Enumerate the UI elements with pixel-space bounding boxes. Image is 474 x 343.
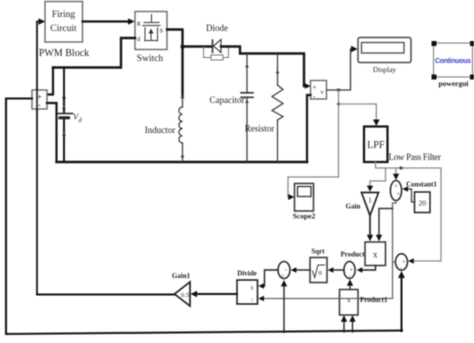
svg-text:Capacitor: Capacitor — [210, 95, 245, 105]
wire rail to measurement right-top port — [47, 68, 53, 95]
wire sum3 output to vertical — [393, 261, 396, 263]
wire bottom power rail — [57, 161, 308, 163]
arrow into sum3 bottom — [398, 271, 405, 278]
wire Divide output to Gain1 — [197, 293, 237, 295]
svg-text:Firing: Firing — [52, 10, 75, 20]
wire LPF output net — [370, 162, 441, 261]
scope Scope2 — [295, 184, 314, 212]
svg-text:Diode: Diode — [206, 23, 228, 33]
wire Switch S output to node — [167, 30, 183, 97]
svg-text:-: - — [349, 274, 351, 280]
arrow into Display — [351, 46, 358, 52]
port tick marks on power components — [63, 65, 279, 157]
gain Gain1 — [175, 282, 191, 306]
arrow into sum2 right — [357, 267, 363, 272]
wire voltmeter minus port to bottom power rail — [307, 95, 311, 162]
voltmeter block +v — [311, 81, 327, 101]
arrow into Scope2 — [288, 194, 294, 200]
sum U3 (right) — [396, 254, 408, 272]
wire feedback from Gain1 up to PWM input — [37, 22, 40, 295]
svg-text:Low Pass Filter: Low Pass Filter — [389, 152, 442, 162]
svg-text:x: x — [251, 286, 254, 292]
arrow into sum1 top — [393, 174, 399, 180]
svg-text:1: 1 — [368, 197, 372, 205]
svg-text:Gain1: Gain1 — [172, 272, 191, 280]
arrow into PWM Block input — [39, 18, 46, 24]
wire sum3 bottom input from rail — [401, 279, 403, 332]
constant Constant1 — [415, 192, 431, 213]
node on LPF net — [399, 166, 402, 169]
sum U2 (mid) — [344, 262, 355, 281]
svg-text:Continuous: Continuous — [435, 58, 471, 65]
gain Gain — [362, 193, 379, 216]
svg-text:20: 20 — [419, 199, 427, 208]
wire node to diode — [183, 45, 213, 47]
svg-text:S: S — [160, 28, 164, 35]
arrow into sum3 right — [408, 258, 414, 264]
arrow into sum4 bottom — [281, 280, 287, 286]
arrow into sum2 bottom — [347, 279, 353, 285]
svg-text:powergui: powergui — [439, 79, 469, 88]
arrow into Product top-right — [376, 235, 382, 242]
scope Display — [358, 38, 411, 63]
arrow into Gain top — [367, 186, 373, 192]
arrows into Product1 bottom — [341, 315, 347, 321]
arrow into Sqrt right — [328, 267, 334, 272]
inductor L — [179, 96, 183, 162]
arrow into Gain1 — [191, 291, 198, 297]
wire bottom signal rail — [6, 331, 402, 335]
svg-text:u: u — [318, 269, 322, 277]
sum U4 (left) — [278, 262, 290, 281]
wire Sqrt output to sum4 — [296, 269, 310, 271]
diode D1 — [204, 40, 229, 61]
node at switch-diode junction — [181, 45, 185, 49]
svg-text:Divide: Divide — [237, 270, 256, 278]
filter block LPF — [364, 127, 388, 163]
wire feedback passing over measurement block — [36, 89, 38, 110]
sqrt block Sqrt — [310, 258, 327, 283]
svg-text:Inductor: Inductor — [145, 125, 176, 135]
wire sum4 bottom input from rail — [283, 287, 285, 333]
svg-text:Gain: Gain — [346, 203, 361, 211]
svg-text:-: - — [285, 267, 287, 274]
svg-text:+: + — [313, 84, 317, 92]
wire Product1 output up to sum2 bottom — [349, 286, 351, 290]
node on v net — [337, 103, 340, 106]
svg-text:x: x — [373, 250, 378, 260]
arrow into LPF top — [373, 120, 380, 127]
node on v wire — [337, 88, 340, 91]
wire Gain1 output to feedback corner — [37, 294, 175, 296]
battery Vd plates — [57, 114, 73, 118]
wire switch lower-left port to dc rail — [53, 38, 135, 68]
svg-text:Switch: Switch — [137, 54, 164, 64]
mosfet block Switch — [135, 12, 167, 50]
divide block Divide — [237, 280, 258, 304]
node on Vd branch — [62, 96, 65, 99]
arrow into Switch g — [128, 18, 135, 24]
arrow into Divide lower input — [258, 296, 264, 302]
wire measurement left port to outer loop — [6, 99, 32, 335]
svg-text:Circuit: Circuit — [50, 24, 77, 34]
wire sum4 output to Divide upper input — [264, 270, 279, 286]
wire Product1 inputs from rail — [344, 321, 353, 332]
wire Product output to sum2 — [362, 266, 376, 271]
arrow into sum1 right — [402, 186, 408, 191]
svg-text:x: x — [347, 295, 351, 304]
arrow into voltmeter + port — [305, 83, 311, 89]
wire diode to output node — [221, 47, 306, 87]
subsystem Firing Circuit (PWM Block) — [45, 2, 83, 43]
arrow into Product top-left — [367, 235, 373, 242]
dc source Vd branch — [63, 68, 65, 163]
capacitor C — [241, 54, 253, 162]
svg-text:-: - — [400, 265, 402, 272]
arrow into sum4 right — [291, 267, 297, 272]
wire Constant1 to sum1 — [408, 189, 415, 202]
svg-text:Sqrt: Sqrt — [311, 248, 325, 256]
svg-text:LPF: LPF — [367, 140, 385, 151]
wire long line passing over Product1 — [339, 298, 359, 300]
wire sum1 output down and to divide (long line) — [264, 201, 397, 299]
svg-text:Resistor: Resistor — [245, 124, 275, 134]
wire voltmeter output v to display riser — [327, 49, 352, 90]
block powergui (selected) — [432, 41, 474, 80]
svg-text:Product1: Product1 — [360, 296, 388, 304]
resistor R — [272, 54, 283, 162]
svg-text:PWM Block: PWM Block — [39, 48, 89, 59]
arrow into Divide upper input — [258, 283, 264, 289]
measurement block (+/-) — [32, 90, 47, 110]
multiplier Product — [365, 242, 386, 266]
svg-text:Constant1: Constant1 — [406, 181, 437, 189]
wire v signal distribution (gray net) — [288, 90, 376, 197]
svg-text:Product: Product — [341, 251, 366, 259]
svg-text:0.5: 0.5 — [181, 292, 189, 299]
sum U1 (reference subtract) — [390, 181, 401, 201]
wire sum2 output to Sqrt — [333, 269, 344, 271]
svg-text:Display: Display — [373, 65, 397, 74]
svg-text:-: - — [38, 101, 41, 110]
wire PWM output to Switch gate — [83, 20, 129, 22]
wire Gain output to Product — [369, 216, 371, 236]
multiplier Product1 — [340, 290, 359, 316]
wire measurement right-bottom port down to bottom power rail — [47, 103, 57, 162]
svg-text:Scope2: Scope2 — [293, 212, 316, 221]
